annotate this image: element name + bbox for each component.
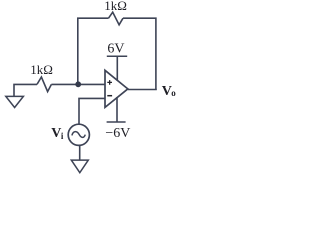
svg-text:6V: 6V bbox=[107, 42, 124, 57]
wire from input resistor to op-amp + input bbox=[51, 83, 105, 85]
ground (left, at + input line) bbox=[6, 96, 24, 107]
power +6V supply rail bar bbox=[107, 55, 127, 57]
power -6V supply rail bar bbox=[107, 121, 126, 123]
wire from source bottom to ground bbox=[79, 145, 81, 160]
wire from Vi source up and right to op-amp - input bbox=[79, 98, 105, 124]
resistor R1 1kOhm input zigzag bbox=[37, 77, 51, 92]
wire +6V bar down to op-amp top edge bbox=[116, 56, 118, 81]
resistor R2 1kOhm feedback zigzag bbox=[109, 12, 124, 25]
sine wave symbol inside source bbox=[72, 132, 85, 138]
wire from left ground step to input resistor bbox=[14, 84, 37, 96]
wire feedback vertical from input node up bbox=[77, 18, 79, 84]
ground (below Vi source) bbox=[71, 160, 88, 173]
wire output from op-amp apex to Vo node bbox=[128, 89, 157, 91]
op-amp + input marking bbox=[107, 80, 112, 85]
source Vi AC signal source circle bbox=[68, 124, 89, 145]
op-amp - input marking bbox=[107, 95, 112, 97]
svg-text:−6V: −6V bbox=[105, 126, 130, 141]
node junction dot at inverting-input node bbox=[75, 81, 81, 87]
wire op-amp bottom edge down to -6V bar bbox=[116, 97, 118, 122]
svg-text:i: i bbox=[61, 131, 64, 141]
svg-text:1kΩ: 1kΩ bbox=[104, 0, 127, 13]
wire feedback top-right segment and right vertical bbox=[123, 18, 156, 89]
svg-text:o: o bbox=[171, 88, 176, 98]
op-amp U1 triangle bbox=[105, 70, 128, 107]
svg-text:V: V bbox=[51, 126, 61, 141]
wire feedback top-left segment bbox=[77, 17, 109, 19]
svg-text:1kΩ: 1kΩ bbox=[30, 62, 53, 77]
